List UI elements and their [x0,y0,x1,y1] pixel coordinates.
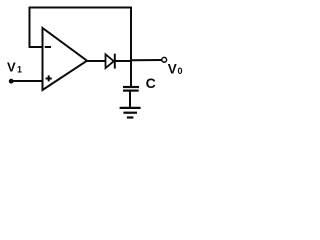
node output terminal [162,57,167,62]
diode D1 [106,54,115,69]
wire diode to node [115,60,131,62]
wire capacitor to ground [129,91,131,108]
node V1 input terminal [9,79,14,84]
wire inverting input [29,46,44,48]
wire feedback loop (left vertical, top horizontal, right vertical) [30,8,132,88]
wire V1 input [11,80,43,82]
svg-text:V: V [7,60,16,75]
ground [120,108,141,118]
op-amp U1 [43,28,88,90]
op-amp plus pin [46,75,52,81]
wire node to output terminal [131,59,162,61]
svg-text:0: 0 [178,66,183,76]
svg-text:C: C [146,75,156,91]
wire op-amp output [86,60,106,62]
label V1 [7,60,22,75]
svg-text:V: V [168,61,177,76]
svg-text:1: 1 [17,65,22,75]
op-amp minus pin [45,46,51,48]
label V0 [168,61,183,76]
capacitor C [123,87,139,91]
